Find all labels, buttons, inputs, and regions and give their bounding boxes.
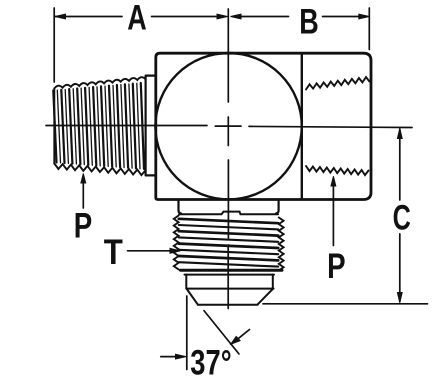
flare nose right chamfer — [258, 288, 274, 304]
dimension A extension line — [53, 8, 55, 82]
flare nose top edge — [185, 274, 275, 276]
svg-text:P: P — [74, 205, 92, 245]
body divider line — [301, 53, 303, 199]
svg-text:T: T — [104, 233, 124, 272]
body bore circle — [155, 53, 301, 199]
flare nose bottom edge — [198, 304, 258, 306]
right port female thread upper zigzag — [306, 77, 370, 89]
horizontal centerline — [46, 126, 412, 128]
fitting body outline — [156, 53, 371, 199]
vertical centerline — [227, 9, 229, 309]
svg-text:B: B — [299, 1, 318, 42]
right port female thread lower zigzag — [306, 166, 369, 175]
dimension B line with arrows — [231, 14, 370, 19]
flare nose left chamfer — [187, 289, 198, 305]
bottom port collar — [179, 200, 279, 214]
T leader arrow — [128, 248, 181, 253]
flare nose sides — [186, 275, 272, 289]
left port collar — [146, 76, 156, 176]
bottom port thread top line — [179, 212, 278, 215]
37deg angled line — [204, 311, 239, 354]
dimension A line with arrows — [55, 14, 228, 19]
left port thread tip end — [53, 89, 55, 164]
left P leader arrow — [81, 174, 86, 209]
37deg extension line — [186, 296, 188, 370]
bottom port thread left edge zigzag — [174, 216, 179, 270]
bottom port thread coils — [179, 219, 278, 223]
svg-text:37°: 37° — [190, 342, 231, 382]
left port thread root bottom edge — [54, 164, 145, 176]
bottom port thread right edge zigzag — [279, 218, 284, 271]
dimension B extension line — [368, 8, 370, 50]
svg-text:A: A — [127, 0, 146, 37]
dimension C bottom extension line — [263, 303, 428, 305]
dimension C line with arrows — [397, 128, 402, 303]
left port thread flank lines — [53, 91, 56, 163]
right P leader arrow — [331, 176, 336, 245]
37deg leader arrow — [231, 330, 250, 345]
svg-text:C: C — [393, 197, 411, 237]
flare nose mid line — [187, 288, 274, 290]
left port thread crest top edge — [54, 77, 145, 88]
bottom port thread end thick line — [181, 269, 283, 272]
37deg horizontal arrow — [161, 354, 186, 359]
svg-text:P: P — [327, 246, 345, 286]
